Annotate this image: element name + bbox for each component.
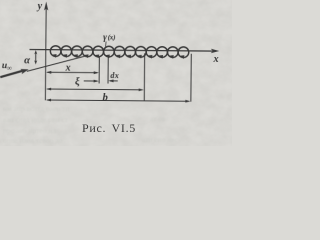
vortex circle 4 <box>82 46 93 58</box>
label γ(x) <box>103 32 115 42</box>
svg-text:∞: ∞ <box>7 64 12 72</box>
vortex circle 9 <box>135 47 146 59</box>
vortex circle 2 <box>61 46 72 58</box>
vortex circle 11 <box>157 47 168 59</box>
svg-text:γ: γ <box>103 32 107 42</box>
vortex circle 5 <box>93 46 104 58</box>
dimension line ξ <box>46 88 144 92</box>
svg-text:нм апр вслтд оаеи тп: нм апр вслтд оаеи тп <box>3 104 70 113</box>
svg-text:dx: dx <box>110 71 119 80</box>
dimension line x <box>46 71 99 74</box>
y-axis <box>43 1 48 100</box>
svg-text:x: x <box>65 62 71 73</box>
vortex circle 8 <box>125 46 136 58</box>
leader line from γ(x) label to vortex element <box>105 42 107 47</box>
angle-of-attack double arrow α <box>34 50 37 64</box>
dimension line b <box>46 99 191 103</box>
vortex circle 12 <box>167 47 178 59</box>
svg-text:(x): (x) <box>108 33 116 41</box>
vortex circle 3 <box>72 46 83 58</box>
extension line at observation point <box>143 53 145 101</box>
svg-text:ξ: ξ <box>75 77 80 88</box>
extension line at element right edge <box>107 56 109 83</box>
vortex circle 7 <box>114 46 125 58</box>
vortex circle 10 <box>146 47 157 59</box>
svg-text:α: α <box>24 55 30 66</box>
vortex circle 13 <box>178 47 189 59</box>
dimension arrows dx <box>84 79 118 82</box>
svg-text:ат ов: ат ов <box>150 114 166 123</box>
free-stream direction line <box>27 55 88 72</box>
vortex circle 6 <box>104 46 115 58</box>
svg-text:опве наел тсвор де: опве наел тсвор де <box>3 136 63 145</box>
label u∞ <box>2 61 12 72</box>
extension line at trailing edge <box>190 54 192 102</box>
svg-text:b: b <box>103 92 108 103</box>
svg-text:атп ено лвс: атп ено лвс <box>142 135 179 144</box>
svg-text:y: y <box>37 1 43 12</box>
ghost print-through text <box>3 104 179 145</box>
x-axis <box>29 47 219 53</box>
svg-text:прс авб нртео ил: прс авб нртео ил <box>3 126 56 135</box>
svg-text:Рис. VI.5: Рис. VI.5 <box>82 121 136 135</box>
svg-text:x: x <box>212 54 218 65</box>
extension line at element left edge <box>98 56 100 83</box>
vortex circle 1 <box>50 46 61 58</box>
velocity vector u∞ <box>0 69 28 78</box>
paper background <box>0 0 232 146</box>
svg-text:вап след иоде рвн ст: вап след иоде рвн ст <box>3 115 69 124</box>
